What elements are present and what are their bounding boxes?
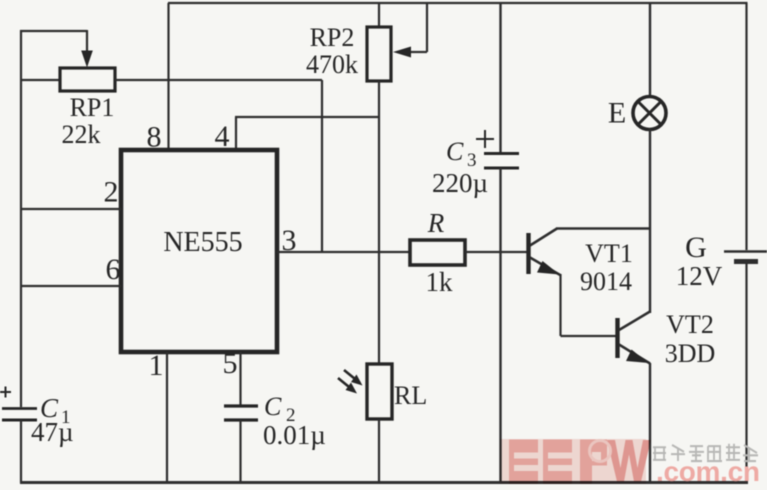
- svg-text:.com.cn: .com.cn: [656, 456, 760, 487]
- svg-text:E: E: [608, 97, 626, 130]
- photoresistor RL: [338, 364, 392, 419]
- wire: battery positive drop: [745, 3, 747, 250]
- svg-text:12V: 12V: [676, 261, 723, 291]
- capacitor C1 47µ: [0, 387, 37, 421]
- lamp E: [633, 97, 666, 130]
- wire: battery negative to ground rail: [745, 262, 747, 483]
- watermark chinese characters (simulated strokes): [653, 444, 758, 461]
- wire: pin 6 to left rail: [21, 285, 121, 287]
- wire: C2 to ground rail: [239, 420, 241, 482]
- svg-text:R: R: [427, 208, 445, 238]
- wire: RP1 wiper drop with arrow: [81, 30, 93, 68]
- wire: pin 8 to V+ rail: [167, 3, 169, 151]
- potentiometer RP2: [367, 27, 391, 81]
- svg-text:NE555: NE555: [163, 227, 242, 258]
- svg-text:RP1: RP1: [70, 93, 115, 122]
- svg-text:RL: RL: [394, 381, 427, 410]
- transistor VT1 9014: [529, 229, 650, 276]
- wire: lamp top lead: [649, 3, 651, 97]
- wire: VT2 emitter to ground rail: [649, 363, 651, 482]
- svg-text:9014: 9014: [580, 267, 632, 296]
- wire: left rail (pins 2/6 down to C1): [20, 30, 22, 407]
- svg-text:RP2: RP2: [310, 23, 355, 52]
- wire: RP2 bottom to RL: [378, 81, 380, 365]
- svg-text:6: 6: [106, 253, 121, 286]
- wire: RP1 right terminal to output node: [115, 79, 322, 81]
- wire: R to VT1 base: [465, 251, 527, 253]
- wire: pin 2 to left rail: [21, 208, 121, 210]
- wire: RP1 wiper loop top: [20, 30, 87, 32]
- wire: C3 to ground rail: [499, 168, 501, 482]
- potentiometer RP1: [60, 68, 115, 91]
- IC NE555: [121, 150, 277, 352]
- svg-text:G: G: [685, 231, 707, 264]
- wire: pin 5 lead: [239, 352, 241, 405]
- svg-text:22k: 22k: [62, 120, 101, 149]
- svg-text:1k: 1k: [426, 267, 454, 297]
- svg-text:3: 3: [282, 224, 297, 257]
- svg-text:470k: 470k: [306, 50, 358, 79]
- svg-text:47µ: 47µ: [31, 417, 74, 447]
- svg-text:5: 5: [223, 347, 238, 380]
- svg-text:220µ: 220µ: [432, 168, 488, 198]
- wire: RL to ground rail: [378, 419, 380, 482]
- wire: RP2 top lead: [378, 3, 380, 28]
- wire: RP1 left terminal: [21, 79, 60, 81]
- svg-text:2: 2: [104, 176, 119, 209]
- wire: lamp bottom to collector node: [649, 129, 651, 313]
- wire: pin 1 to ground rail: [166, 352, 168, 482]
- capacitor C2 0.01µ: [224, 406, 258, 420]
- svg-text:VT2: VT2: [666, 310, 714, 339]
- capacitor C3 220µ: [476, 130, 519, 168]
- wire: output vertical (RP1 to pin 3 net): [321, 80, 323, 252]
- watermark EEPW: [500, 439, 651, 484]
- svg-text:0.01µ: 0.01µ: [263, 420, 326, 450]
- svg-text:C: C: [264, 392, 282, 421]
- wire: C3 positive lead from V+: [499, 3, 501, 153]
- wire: bottom ground rail: [20, 481, 748, 484]
- wire: VT1 emitter to VT2 base: [561, 274, 617, 336]
- wire: RP2 wiper arrow from V+: [393, 3, 427, 58]
- svg-text:3DD: 3DD: [665, 339, 716, 368]
- battery G 12V: [724, 252, 767, 262]
- wire: top V+ rail: [168, 2, 748, 4]
- wire: pin 4 lead: [235, 117, 380, 151]
- wire: C1 to ground rail: [20, 420, 22, 483]
- svg-text:C: C: [446, 137, 464, 166]
- wire: pin 3 output: [277, 251, 410, 253]
- svg-text:VT1: VT1: [585, 239, 633, 268]
- svg-text:1: 1: [149, 349, 164, 382]
- resistor R: [410, 240, 465, 265]
- transistor VT2 3DD: [618, 312, 651, 364]
